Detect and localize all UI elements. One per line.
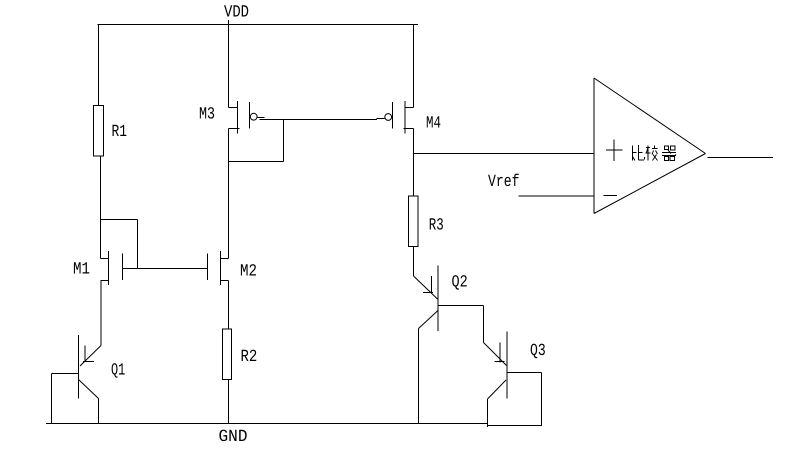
wire Q2 collector diagonal: [419, 311, 439, 329]
svg-text:Vref: Vref: [488, 173, 520, 192]
svg-text:M4: M4: [426, 115, 441, 134]
comparator minus sign: [604, 195, 618, 197]
wire Q3 base horizontal: [507, 372, 542, 374]
op-amp U1 comparator triangle: [594, 78, 706, 214]
svg-text:R2: R2: [241, 348, 258, 367]
svg-text:R3: R3: [429, 217, 444, 236]
svg-text:Q2: Q2: [452, 274, 468, 293]
svg-text:M3: M3: [199, 106, 215, 125]
svg-text:VDD: VDD: [224, 4, 249, 23]
wire comparator output: [708, 157, 774, 159]
wire gate line M1 to M2: [123, 268, 208, 270]
wire M1 source down to Q1 emitter: [100, 281, 102, 346]
wire Q3 collector diagonal: [488, 380, 507, 399]
label comparator text: [633, 145, 677, 161]
wire Q1 collector diagonal: [79, 380, 99, 399]
wire left branch from VDD to R1: [98, 25, 100, 107]
wire Q3 base vertical down: [541, 373, 543, 427]
wire R1 bottom to M1 drain: [100, 156, 102, 259]
wire M4 gate stub: [377, 118, 385, 120]
wire VDD top rail: [98, 24, 419, 26]
resistor R1: [94, 106, 104, 157]
transistor M4: [385, 101, 414, 134]
svg-text:M2: M2: [240, 263, 257, 282]
transistor M1: [101, 251, 123, 285]
wire Q3 bottom horizontal: [487, 425, 542, 427]
wire Q3 collector to GND: [487, 399, 489, 427]
wire M4 drain to comparator plus input: [414, 153, 595, 155]
transistor Q1: [79, 335, 102, 399]
wire M2 source down to R2: [228, 281, 230, 330]
wire M3 gate-drain branch vertical: [283, 120, 285, 162]
wire Q2 base to Q3 emitter vertical: [483, 306, 485, 343]
transistor M3: [229, 101, 265, 134]
wire Q2 base to Q3 emitter horizontal: [438, 305, 484, 307]
wire Q1 base vertical down: [51, 374, 53, 424]
svg-text:Q3: Q3: [530, 342, 546, 361]
transistor Q3: [484, 332, 508, 399]
wire M4 source down to R3: [413, 129, 415, 197]
wire gate line M3 to M4: [260, 119, 378, 121]
transistor Q2: [414, 266, 439, 332]
wire M1 drain-gate branch horizontal: [101, 219, 138, 221]
transistor M2: [208, 251, 229, 285]
wire Vref to comparator minus input: [519, 195, 595, 197]
resistor R2: [223, 329, 232, 380]
wire GND rail: [46, 423, 488, 425]
svg-text:GND: GND: [219, 428, 248, 447]
wire R2 bottom to GND: [228, 380, 230, 424]
svg-text:Q1: Q1: [111, 362, 125, 381]
wire M1 drain-gate branch vertical: [137, 220, 139, 269]
wire Q1 base horizontal: [52, 373, 79, 375]
resistor R3: [409, 196, 419, 247]
svg-text:M1: M1: [73, 261, 90, 280]
comparator plus sign: [606, 140, 623, 162]
svg-text:R1: R1: [112, 123, 128, 142]
wire Q1 collector to GND: [98, 399, 100, 424]
wire Q2 collector to GND: [418, 329, 420, 424]
wire M2 drain up to M3 source: [228, 129, 230, 259]
wire VDD to M4 drain: [413, 25, 415, 108]
wire M3 gate-drain branch horizontal: [229, 161, 284, 163]
wire VDD to M3 drain: [228, 20, 230, 108]
wire R3 bottom to Q2 emitter: [413, 247, 415, 277]
